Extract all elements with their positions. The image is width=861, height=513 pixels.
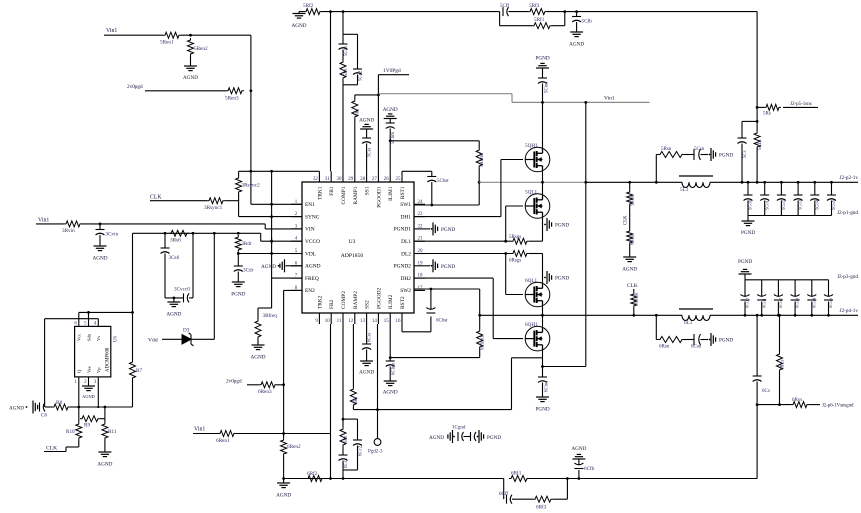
- svg-text:AGND: AGND: [569, 42, 584, 48]
- svg-text:5Cs: 5Cs: [743, 150, 748, 158]
- U6 pin 1 stub: [78, 377, 80, 407]
- svg-text:U6: U6: [114, 336, 119, 342]
- wire FB2 to sense riser: [756, 405, 758, 479]
- resistor 3Rs6: [169, 230, 189, 236]
- ground PGND output bank 2: [744, 274, 746, 280]
- svg-text:RAMP1: RAMP1: [353, 186, 359, 204]
- wire 3Cdr to PGND: [237, 272, 239, 283]
- svg-text:DL1: DL1: [401, 239, 411, 245]
- svg-text:J2-p5-1sns: J2-p5-1sns: [790, 102, 812, 107]
- svg-text:3Rs6: 3Rs6: [170, 237, 181, 243]
- junction 6Cfb tap: [578, 477, 581, 480]
- svg-text:5Co2: 5Co2: [781, 199, 786, 210]
- junction snubber2 tap: [655, 314, 658, 317]
- ground PGND at pin 19: [425, 265, 430, 267]
- wire VCCO rail: [133, 232, 261, 234]
- svg-text:PGOOD2: PGOOD2: [376, 287, 382, 309]
- wire 5QH1 drain: [542, 147, 544, 150]
- svg-text:27: 27: [372, 177, 378, 182]
- svg-text:Vdd: Vdd: [148, 338, 158, 344]
- svg-text:AGND: AGND: [359, 370, 374, 376]
- junction COMP2 at FB2 rail: [342, 477, 345, 480]
- junction EN1 vertical at TRK1 rail: [250, 170, 253, 173]
- wire Vin1 row extension: [284, 433, 331, 435]
- resistor 6Rc: [342, 419, 344, 427]
- svg-text:DH1: DH1: [401, 214, 412, 220]
- svg-text:6Cfb: 6Cfb: [584, 465, 595, 472]
- svg-text:ADP1850: ADP1850: [341, 253, 364, 259]
- svg-text:3Rdr: 3Rdr: [241, 241, 252, 247]
- svg-text:5Ren2: 5Ren2: [194, 46, 208, 52]
- wire COMP1 vertical upper: [342, 12, 344, 35]
- wire R7 hook: [132, 380, 134, 407]
- svg-text:PGND: PGND: [738, 259, 752, 265]
- junction 3Rs6 right: [192, 232, 195, 235]
- ground AGND above 6Cfb: [572, 458, 585, 460]
- wire Vin rail grey lower: [512, 101, 650, 103]
- svg-text:AGND: AGND: [276, 493, 291, 499]
- svg-text:ILIM1: ILIM1: [388, 186, 394, 201]
- resistor 6Rf2: [306, 476, 324, 482]
- resistor 6Ren3: [259, 382, 277, 388]
- wire 6QH1 drain down: [542, 351, 544, 367]
- ground AGND below 6Clim: [384, 380, 397, 382]
- U3 left pins 1-8 stubs, numbers, names: [291, 203, 302, 205]
- junction Vin rail start: [377, 94, 380, 97]
- capacitor 3Cs6 left leg: [164, 233, 166, 248]
- svg-text:6Csn: 6Csn: [691, 345, 702, 350]
- wire 6Ren1 to EN2 junction: [236, 433, 284, 435]
- svg-text:Vcc: Vcc: [77, 334, 82, 341]
- wire 6Rsgs to 6QL1 source: [529, 253, 543, 255]
- resistor 5Rclk: [629, 182, 631, 190]
- svg-text:16: 16: [396, 319, 402, 324]
- junction SW1 at x585: [584, 181, 587, 184]
- junction 5RLs at rail: [756, 181, 759, 184]
- wire EN1 vertical: [250, 35, 252, 204]
- capacitor 6Cbst: [401, 324, 403, 332]
- wire COMP1 vertical lower: [342, 85, 344, 172]
- wire FB2 rail right: [567, 478, 757, 480]
- wire common vertical through VCCO: [271, 238, 273, 244]
- svg-text:SS2: SS2: [365, 300, 371, 309]
- svg-text:6Rt: 6Rt: [354, 396, 359, 404]
- wire U6 Vcc-Sdn rail: [79, 311, 133, 313]
- svg-text:TRK2: TRK2: [317, 295, 323, 309]
- svg-text:29: 29: [348, 177, 354, 182]
- junction VDL at common vertical: [270, 252, 273, 255]
- svg-text:Sdn: Sdn: [86, 333, 91, 341]
- svg-text:6Ren1: 6Ren1: [216, 438, 230, 444]
- capacitors 6Co0-6Co5 output bank 2: [744, 314, 747, 317]
- svg-text:R11: R11: [108, 429, 117, 435]
- junction FETs at SW1: [541, 181, 544, 184]
- resistor R9: [80, 416, 100, 422]
- svg-text:6Rf3: 6Rf3: [536, 504, 547, 511]
- wire 5QH1 source to SW1: [542, 172, 544, 183]
- svg-text:Q: Q: [77, 369, 82, 373]
- junction Vin node at 6QH1 drain: [541, 365, 544, 368]
- svg-text:3Cdr: 3Cdr: [243, 268, 254, 274]
- wire PGOOD2 drop: [377, 324, 379, 439]
- wire COMP2 bracket bottom: [343, 469, 358, 471]
- svg-text:AGND: AGND: [93, 256, 108, 262]
- wire EN2 vertical: [284, 289, 302, 291]
- svg-text:COMP2: COMP2: [341, 291, 347, 309]
- comparator U6 ADCMP608 body: [75, 326, 111, 377]
- svg-text:ILIM2: ILIM2: [388, 294, 394, 309]
- svg-text:6Rlim1: 6Rlim1: [481, 335, 486, 350]
- resistor 6Rlim1: [477, 329, 483, 349]
- svg-text:AGND: AGND: [261, 264, 276, 270]
- svg-text:5Rsn: 5Rsn: [661, 147, 672, 152]
- wire snubber2 riser: [655, 315, 657, 339]
- svg-text:Vs: Vs: [96, 336, 101, 341]
- U6 pin 4 stub: [97, 319, 99, 327]
- svg-text:10: 10: [325, 319, 331, 324]
- svg-text:AGND: AGND: [383, 390, 398, 396]
- svg-text:PGOOD1: PGOOD1: [376, 186, 382, 208]
- wire DH2 gate route: [414, 277, 493, 279]
- wire 6Rf3 up: [553, 498, 567, 500]
- svg-text:D3: D3: [183, 328, 190, 334]
- junction 6Cbst at SW2 pin: [430, 288, 433, 291]
- svg-text:AGND: AGND: [183, 75, 198, 81]
- resistor 5Rc: [342, 50, 344, 61]
- wire COMP2 bracket top: [343, 418, 358, 420]
- junction 6Cs at rail: [756, 314, 759, 317]
- U6 pin 2 stub: [88, 377, 90, 386]
- wire 5QL1 drain to SW1: [542, 182, 544, 194]
- svg-text:3Cvin: 3Cvin: [106, 232, 119, 238]
- wire SW1 node grey: [479, 181, 586, 183]
- svg-text:Vin1: Vin1: [38, 218, 49, 224]
- capacitor 5Cfb: [576, 12, 578, 17]
- junction ILIM2 net: [389, 356, 392, 359]
- svg-text:6Rf1: 6Rf1: [511, 470, 522, 477]
- U6 pin 3 stub: [97, 377, 99, 407]
- svg-text:31: 31: [325, 177, 331, 182]
- resistor 6Rclk: [627, 229, 633, 245]
- wire Vin rail step: [511, 94, 513, 103]
- wire 6Rclk to AGND: [629, 245, 631, 257]
- svg-text:J2-p2-1v: J2-p2-1v: [840, 175, 859, 181]
- svg-text:4: 4: [94, 322, 97, 327]
- ground AGND at pin 6: [284, 259, 286, 272]
- junction 5Rclk at SW1: [628, 181, 631, 184]
- svg-text:5RLs: 5RLs: [758, 139, 763, 150]
- wire 6Cff to 6Rf3: [512, 498, 533, 500]
- svg-text:SW2: SW2: [400, 288, 411, 294]
- junction 5Cin1 at rail: [541, 101, 544, 104]
- junction 6Rclk2 at SW2: [632, 314, 635, 317]
- junction SYNC at x271.6: [270, 215, 273, 218]
- svg-text:6Cs: 6Cs: [762, 389, 770, 394]
- wire 5Rs to label: [783, 106, 818, 108]
- wire COMP1 bracket bottom: [342, 80, 344, 85]
- svg-text:5Co1: 5Co1: [764, 199, 769, 210]
- svg-text:CLK: CLK: [46, 446, 57, 452]
- wire R9 loop right: [104, 407, 106, 419]
- svg-text:6Css: 6Css: [367, 333, 372, 342]
- wire D3 to VCCO riser: [191, 338, 214, 340]
- capacitor 5Cc2: [357, 34, 359, 69]
- resistor 3Rsync2: [238, 194, 240, 201]
- wire 3Rsync1 to node: [225, 200, 239, 202]
- junction 5Rs tap: [756, 106, 759, 109]
- wire left common vertical: [271, 171, 273, 278]
- svg-text:6Rsgs: 6Rsgs: [509, 259, 521, 264]
- resistor 3Rfreq: [255, 319, 261, 339]
- svg-text:Pgd2-3: Pgd2-3: [368, 450, 383, 455]
- svg-text:3Cs6: 3Cs6: [169, 255, 180, 261]
- wire 1V0Pgd stub: [378, 74, 409, 76]
- wire 3Cs6 bottom row: [165, 297, 184, 299]
- junction 6Ren3 at EN2: [282, 383, 285, 386]
- wire ILIM2 drop: [389, 324, 391, 358]
- svg-text:PGND: PGND: [555, 223, 569, 229]
- junction SW1 node: [478, 181, 481, 184]
- svg-text:1V0Pgd: 1V0Pgd: [383, 68, 401, 74]
- junction FB2 parallel right: [566, 477, 569, 480]
- svg-text:6Rsn: 6Rsn: [659, 345, 670, 350]
- wire SYNC jog: [238, 201, 240, 217]
- wire SW2 node rail: [480, 314, 682, 316]
- capacitor 5Cin1: [538, 77, 547, 79]
- svg-text:Vin1: Vin1: [604, 96, 615, 102]
- junction FETs at SW2: [541, 314, 544, 317]
- junction COMP2 bracket: [342, 418, 345, 421]
- ground AGND at FB1 rail start: [293, 13, 306, 15]
- junction 5Cs at rail: [741, 181, 744, 184]
- svg-text:PGND: PGND: [719, 338, 733, 344]
- svg-text:CLK: CLK: [627, 283, 638, 289]
- svg-text:17: 17: [418, 286, 424, 291]
- svg-text:32: 32: [313, 177, 319, 182]
- svg-text:VDL: VDL: [305, 251, 316, 257]
- capacitor 6Cc2: [357, 419, 359, 440]
- wire 3Rfreq to AGND: [257, 339, 259, 345]
- wire FB1 rail to sense riser: [756, 12, 758, 122]
- svg-text:6Rclk: 6Rclk: [631, 233, 636, 245]
- svg-text:22: 22: [418, 224, 424, 229]
- svg-text:5Rt: 5Rt: [356, 108, 361, 116]
- ground PGND below 3Cdr: [232, 281, 245, 283]
- wire VIN jog to pin 3: [264, 224, 266, 229]
- wire TRK1 rail: [238, 171, 240, 176]
- junction R7 top: [131, 311, 134, 314]
- wire Vdd to D3: [162, 338, 182, 340]
- svg-text:AGND: AGND: [359, 118, 374, 124]
- wire SW2 riser down: [479, 289, 481, 329]
- junction VCCO at common vertical: [270, 240, 273, 243]
- junction 5Cbst at SW1: [430, 204, 433, 207]
- resistor 6Rf1: [509, 476, 529, 482]
- svg-text:6Co1: 6Co1: [761, 297, 766, 308]
- svg-text:6Co0: 6Co0: [745, 297, 750, 308]
- wire C6 to R8: [45, 406, 52, 408]
- resistor 5Rf1: [532, 23, 552, 29]
- svg-text:ADCMP608: ADCMP608: [106, 347, 111, 372]
- svg-text:5Cc1: 5Cc1: [344, 45, 349, 56]
- wire FB1 vertical: [330, 12, 332, 172]
- wire U6 Vs rail: [45, 318, 99, 320]
- svg-text:9: 9: [315, 319, 318, 324]
- svg-text:3Rvin: 3Rvin: [62, 228, 75, 234]
- resistor 3Rsync1: [207, 198, 225, 204]
- svg-text:AGND: AGND: [305, 264, 321, 270]
- svg-text:6Ren3: 6Ren3: [258, 389, 272, 395]
- svg-text:J2-p4-1v: J2-p4-1v: [840, 308, 859, 314]
- capacitor 5Cff: [499, 11, 501, 13]
- capacitor 6Clim: [389, 358, 391, 361]
- svg-text:2v0pgd: 2v0pgd: [127, 84, 143, 90]
- ground AGND below 6Css: [360, 360, 373, 362]
- wire BST1 to 5Cbst: [402, 170, 432, 172]
- svg-text:6Co3: 6Co3: [795, 297, 800, 308]
- capacitor 5Csn: [693, 149, 695, 160]
- wire FB2 mid: [529, 478, 567, 480]
- wire ILIM1 to 5Rlim1: [390, 140, 479, 142]
- wire 6Ren2 to FB2 rail node: [283, 456, 285, 479]
- svg-text:PGND: PGND: [231, 292, 245, 298]
- svg-text:19: 19: [418, 261, 424, 266]
- wire CLK to 3Rsync1: [150, 200, 207, 202]
- wire R8 to node X: [70, 406, 79, 408]
- svg-text:PGND: PGND: [741, 230, 755, 236]
- svg-text:R8: R8: [56, 400, 62, 406]
- svg-text:5Rclk: 5Rclk: [631, 194, 636, 206]
- svg-text:VCCO: VCCO: [305, 239, 320, 245]
- capacitor 6Css: [366, 324, 368, 344]
- junction PGOOD2 crossing: [376, 408, 379, 411]
- wire Vin1 to 5Ren1: [104, 34, 163, 36]
- wire SW1 node black: [586, 181, 682, 183]
- resistor 6Rsgs: [511, 251, 529, 257]
- svg-text:AGND: AGND: [166, 312, 181, 318]
- ground PGND below 6Cin1: [536, 396, 549, 398]
- resistor 6Rt: [352, 324, 354, 387]
- wire 5QL1 source: [542, 218, 544, 225]
- wire FB1 rail left: [322, 11, 500, 13]
- wire PGOOD1 vertical: [377, 75, 379, 172]
- resistor 6RLs: [779, 315, 781, 352]
- wire 3Rvin to VIN: [82, 223, 265, 225]
- resistor 5Rf2: [299, 11, 304, 13]
- svg-text:Vin1: Vin1: [106, 28, 117, 34]
- svg-text:AGND: AGND: [571, 446, 586, 452]
- svg-text:J2-p3-gnd: J2-p3-gnd: [837, 274, 858, 280]
- svg-text:6: 6: [74, 322, 77, 327]
- ground AGND below 6Rclk: [623, 256, 636, 258]
- resistor 6Rclk2: [633, 289, 635, 292]
- junction x585 riser at rail: [584, 101, 587, 104]
- svg-text:25: 25: [396, 177, 402, 182]
- resistor 5Ren3: [226, 88, 244, 94]
- wire 5Rsn to 5Csn: [684, 154, 694, 156]
- wire 5Rf1 to junction: [552, 25, 565, 27]
- terminal Pgd2-3: [374, 439, 381, 446]
- wire 2v0pgd to 5Ren3: [145, 90, 226, 92]
- junction EN1 at x271.6: [270, 203, 273, 206]
- svg-text:AGND: AGND: [292, 23, 307, 29]
- svg-text:FB2: FB2: [329, 299, 335, 309]
- capacitor C6: [39, 403, 41, 412]
- wire 5Rf3 to junction: [547, 11, 565, 13]
- svg-text:AGND: AGND: [622, 267, 637, 273]
- wire R9 loop left: [78, 407, 80, 419]
- svg-text:5Cfb: 5Cfb: [582, 18, 593, 25]
- junction SW2 node left: [478, 314, 481, 317]
- junction sense node ch2: [756, 403, 759, 406]
- U3 right pins 17-24 stubs, numbers, names: [414, 203, 425, 205]
- svg-text:RAMP2: RAMP2: [353, 291, 359, 309]
- svg-text:C6: C6: [41, 413, 47, 419]
- ground AGND at U6 pin 2: [82, 385, 95, 387]
- svg-text:PGND2: PGND2: [394, 264, 412, 270]
- junction FB1 parallel right: [563, 10, 566, 13]
- resistor 6Rsn: [656, 339, 658, 341]
- svg-text:11: 11: [337, 319, 342, 324]
- svg-text:6Co4: 6Co4: [811, 297, 816, 308]
- wire 5Ren2 to AGND: [190, 56, 192, 66]
- wire 5Ren1 to EN1 corner: [181, 34, 251, 36]
- svg-text:5Cin1: 5Cin1: [545, 81, 550, 93]
- transistor 6QH1: [525, 326, 550, 351]
- junction 3Cs6 leg: [164, 232, 167, 235]
- junction ILIM1 net: [389, 139, 392, 142]
- svg-text:3Cvcc0: 3Cvcc0: [174, 287, 190, 293]
- wire 5Rclk to 6Rclk: [629, 206, 631, 229]
- svg-text:AGND: AGND: [383, 107, 398, 113]
- wire DH1 gate route: [414, 216, 501, 218]
- resistor 6Ren2: [283, 434, 285, 439]
- junction node Y: [104, 406, 107, 409]
- transistor 5QH1: [525, 147, 550, 172]
- svg-text:J2-p1-gnd: J2-p1-gnd: [837, 210, 858, 216]
- svg-text:DL2: DL2: [401, 251, 411, 257]
- junction node X (pin1): [77, 406, 80, 409]
- wire 6Rclk2 to SW2: [633, 308, 635, 315]
- junction common vertical at TRK1 rail: [270, 170, 273, 173]
- wire 6Rvs to label: [809, 404, 820, 406]
- junction 5Ren3 to EN1 vertical: [250, 89, 253, 92]
- capacitor 3Cdr: [237, 254, 239, 267]
- wire output2 cap bus: [745, 279, 829, 281]
- svg-text:CLK: CLK: [150, 195, 162, 201]
- svg-text:5Rsgs: 5Rsgs: [509, 235, 521, 240]
- wire output2 rail: [710, 314, 858, 316]
- svg-text:15: 15: [384, 319, 390, 324]
- wire VIN sense drop x132.5: [132, 233, 134, 312]
- svg-text:1: 1: [74, 380, 77, 385]
- svg-text:U3: U3: [349, 239, 356, 245]
- wire 5Cff to 5Rf3: [509, 11, 529, 13]
- svg-text:Vee: Vee: [86, 366, 91, 373]
- svg-text:5Rlim1: 5Rlim1: [480, 152, 485, 167]
- junction 6RLs at node: [778, 403, 781, 406]
- svg-text:3: 3: [94, 380, 97, 385]
- svg-text:PGND: PGND: [441, 264, 455, 270]
- svg-text:5Cff: 5Cff: [500, 4, 509, 9]
- wire 6QH1 top to SW2: [542, 315, 544, 326]
- svg-text:Vp: Vp: [96, 367, 101, 373]
- wire FB1 rail right: [565, 11, 757, 13]
- wire Vin drop to 5QH1: [542, 102, 544, 147]
- svg-text:5L1: 5L1: [680, 187, 689, 193]
- resistor R7: [132, 312, 134, 360]
- junction 3Rdr top: [237, 232, 240, 235]
